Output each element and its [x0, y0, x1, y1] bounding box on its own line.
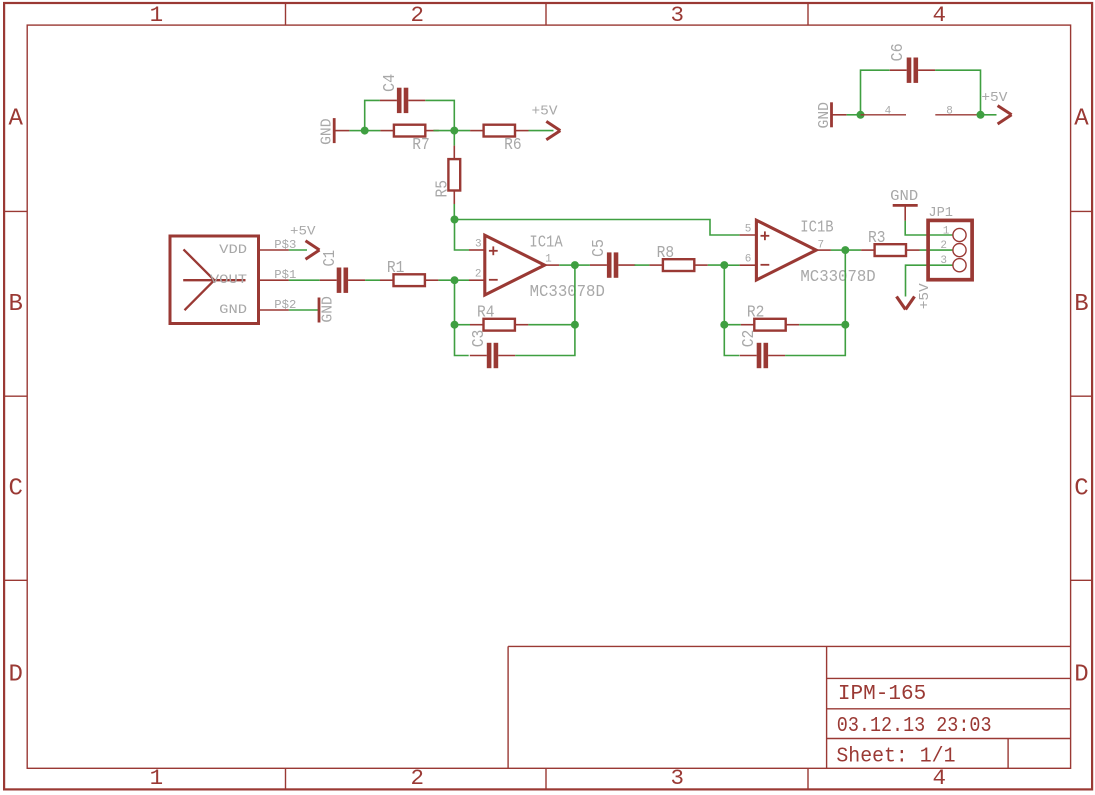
- wire GND pin: [289, 309, 319, 311]
- svg-text:C5: C5: [590, 239, 609, 257]
- svg-text:3: 3: [940, 255, 947, 267]
- capacitor C3: [470, 343, 515, 368]
- frame column numbers (top): [150, 2, 946, 28]
- svg-text:+5V: +5V: [917, 283, 933, 310]
- junction: [361, 127, 369, 135]
- resistor R4: [470, 319, 528, 331]
- svg-text:IC1A: IC1A: [529, 234, 563, 253]
- junction: [571, 261, 579, 269]
- wire C1 to R1: [365, 279, 380, 281]
- label R6: [504, 136, 521, 155]
- resistor R3: [861, 244, 919, 256]
- capacitor C1: [320, 268, 365, 293]
- ground GND (sensor): [318, 298, 321, 323]
- wire R5 to node: [453, 204, 455, 220]
- wire junction to R6: [454, 130, 470, 132]
- wire R8 to node: [708, 264, 725, 266]
- resistor R1: [380, 274, 438, 286]
- svg-text:R7: R7: [412, 136, 430, 155]
- junction: [720, 321, 728, 329]
- frame row letters (left): [8, 105, 23, 688]
- svg-text:C: C: [1074, 476, 1088, 503]
- supply +5V (R6): [546, 121, 560, 139]
- wire R4 to node: [528, 324, 575, 326]
- svg-text:2: 2: [411, 2, 425, 28]
- svg-text:4: 4: [885, 105, 892, 117]
- wire node to pin 2: [455, 279, 470, 281]
- ground GND (C6): [832, 102, 847, 127]
- capacitor C5: [590, 252, 635, 277]
- label GND (sensor): [320, 296, 336, 323]
- pin name VDD: [219, 243, 247, 257]
- junction: [977, 111, 985, 119]
- wire node to R2: [724, 324, 741, 326]
- svg-text:C: C: [8, 476, 22, 503]
- pin 1 stub IC1A: [544, 264, 559, 266]
- svg-text:R3: R3: [868, 229, 886, 248]
- junction: [451, 321, 459, 329]
- pin 3 stub IC1A: [469, 249, 484, 251]
- label +5V (sensor): [290, 224, 316, 238]
- pin number 3 (JP1): [940, 255, 947, 267]
- wire R3 to JP1 pin 2: [920, 249, 953, 251]
- pin number 7 (IC1B): [817, 239, 824, 251]
- resistor R6: [470, 125, 528, 137]
- label R5: [433, 180, 452, 198]
- connector JP1: [928, 220, 972, 279]
- title text IPM-165: [838, 683, 926, 706]
- svg-text:R4: R4: [477, 304, 495, 323]
- svg-text:D: D: [1074, 662, 1088, 689]
- wire GND to node (C6): [847, 114, 861, 116]
- capacitor C6: [890, 58, 935, 83]
- svg-text:GND: GND: [320, 296, 336, 323]
- wire R2 to node: [799, 324, 845, 326]
- pin name GND: [219, 303, 247, 317]
- wire C2 to right vertical (IC1B): [785, 250, 845, 355]
- wire R7 to junction: [433, 130, 454, 132]
- label GND (R7 section): [320, 118, 336, 145]
- label MC33078D (IC1A): [530, 283, 605, 302]
- frame column numbers (bottom): [150, 765, 946, 791]
- svg-text:MC33078D: MC33078D: [530, 283, 605, 302]
- pin number 1 (JP1): [943, 225, 950, 237]
- svg-text:4: 4: [933, 765, 947, 791]
- wire VDD to +5V: [289, 249, 307, 251]
- svg-text:C4: C4: [381, 74, 400, 92]
- op-amp IC1B: [756, 220, 816, 280]
- svg-text:7: 7: [817, 239, 824, 251]
- pin 6 stub IC1B: [740, 264, 756, 266]
- pin number 4 (IC1): [885, 105, 892, 117]
- wire node to +5V (C6): [981, 114, 997, 116]
- svg-text:MC33078D: MC33078D: [800, 268, 875, 287]
- label P$3: [274, 239, 296, 252]
- svg-text:1: 1: [545, 254, 552, 266]
- power pin 8 (IC1): [935, 114, 980, 116]
- wire C3 to right vertical: [515, 265, 575, 355]
- resistor R8: [649, 259, 707, 271]
- svg-text:03.12.13 23:03: 03.12.13 23:03: [837, 715, 992, 738]
- junction: [720, 261, 728, 269]
- pin 7 stub IC1B: [816, 249, 831, 251]
- pin number 2 (JP1): [940, 240, 947, 252]
- svg-text:1: 1: [943, 225, 950, 237]
- svg-text:GND: GND: [890, 189, 918, 205]
- pin P$3 stub: [259, 249, 289, 251]
- wire JP1 pin 3 to +5V: [906, 265, 953, 296]
- wire node to IC1B +in: [455, 220, 740, 236]
- pin P$2 stub: [259, 309, 289, 311]
- svg-text:C6: C6: [889, 43, 908, 61]
- wire GND to JP1 pin 1: [905, 221, 953, 235]
- resistor R2: [741, 319, 799, 331]
- wire R1 to node: [438, 279, 454, 281]
- junction: [571, 321, 579, 329]
- pin name VOUT: [210, 273, 248, 287]
- resistor R5: [448, 146, 460, 204]
- pin number 8 (IC1): [946, 105, 953, 117]
- label C1: [321, 250, 340, 267]
- label C5: [590, 239, 609, 257]
- pin P$1 stub: [259, 279, 289, 281]
- label +5V (JP1): [917, 283, 933, 310]
- label R1: [387, 259, 405, 278]
- svg-text:GND: GND: [219, 303, 247, 317]
- label IC1A: [529, 234, 563, 253]
- svg-text:Sheet: 1/1: Sheet: 1/1: [836, 746, 955, 769]
- power pin 4 (IC1): [861, 114, 907, 116]
- junction: [841, 321, 849, 329]
- wire VOUT to C1: [289, 279, 320, 281]
- svg-text:C3: C3: [470, 330, 489, 348]
- svg-text:GND: GND: [320, 118, 336, 145]
- wire pin1 to node: [559, 264, 575, 266]
- wire C5 to R8: [635, 264, 650, 266]
- label C4: [381, 74, 400, 92]
- ground GND (JP1): [893, 205, 918, 220]
- wire C6 right leg: [935, 70, 980, 115]
- junction: [451, 276, 459, 284]
- wire junction to R7: [365, 130, 381, 132]
- junction: [451, 216, 459, 224]
- svg-text:R1: R1: [387, 259, 405, 278]
- pin number 2 (IC1A): [475, 268, 482, 280]
- svg-text:6: 6: [745, 254, 752, 266]
- svg-text:A: A: [8, 105, 23, 132]
- svg-text:VDD: VDD: [219, 243, 247, 257]
- svg-text:R2: R2: [747, 304, 765, 323]
- svg-text:8: 8: [946, 105, 953, 117]
- svg-text:R5: R5: [433, 180, 452, 198]
- pin number 3 (IC1A): [475, 238, 482, 250]
- svg-text:IC1B: IC1B: [800, 219, 833, 238]
- title sheet 1/1: [836, 746, 955, 769]
- supply +5V (JP1): [897, 297, 915, 310]
- wire R6 to +5V: [529, 130, 554, 132]
- svg-text:3: 3: [671, 2, 685, 28]
- svg-text:4: 4: [933, 2, 947, 28]
- title block: [508, 646, 1071, 768]
- label R2: [747, 304, 765, 323]
- ground GND (R7 section): [334, 118, 349, 143]
- pin 2 stub IC1A: [469, 279, 484, 281]
- svg-text:B: B: [8, 291, 22, 318]
- supply +5V (C6): [998, 106, 1012, 124]
- label R3: [868, 229, 886, 248]
- pin number 5 (IC1B): [745, 223, 752, 235]
- wire node to R4: [455, 324, 471, 326]
- svg-text:3: 3: [671, 765, 685, 791]
- svg-text:3: 3: [475, 238, 482, 250]
- label C2: [740, 330, 759, 348]
- svg-text:D: D: [8, 662, 22, 689]
- junction: [450, 127, 458, 135]
- svg-text:GND: GND: [817, 102, 833, 129]
- label C6: [889, 43, 908, 61]
- junction: [841, 246, 849, 254]
- wire feedback left vertical (IC1B): [724, 265, 739, 355]
- pin 5 stub IC1B: [740, 234, 756, 236]
- label P$1: [274, 269, 296, 282]
- wire node to pin 3: [455, 220, 470, 251]
- wire C4 left leg: [365, 100, 380, 130]
- wire feedback left vertical: [455, 280, 469, 355]
- label IC1B: [800, 219, 833, 238]
- svg-text:1: 1: [150, 2, 164, 28]
- wire junction to R5: [453, 131, 455, 146]
- label GND (C6): [817, 102, 833, 129]
- svg-text:+5V: +5V: [290, 224, 316, 238]
- label +5V (R6): [532, 104, 559, 120]
- wire node to C5: [575, 264, 590, 266]
- svg-text:2: 2: [940, 240, 947, 252]
- svg-text:JP1: JP1: [928, 206, 953, 221]
- title date 03.12.13 23:03: [837, 715, 992, 738]
- junction: [857, 111, 865, 119]
- svg-text:A: A: [1074, 105, 1089, 132]
- resistor R7: [380, 125, 438, 137]
- svg-text:+5V: +5V: [532, 104, 559, 120]
- wire node to pin 6: [724, 264, 739, 266]
- wire GND to junction: [349, 130, 364, 132]
- label R4: [477, 304, 495, 323]
- wire C6 left leg: [861, 70, 890, 115]
- capacitor C2: [740, 343, 785, 368]
- label +5V (C6): [981, 90, 1008, 106]
- pin number 1 (IC1A): [545, 254, 552, 266]
- svg-text:+5V: +5V: [981, 90, 1008, 106]
- svg-text:VOUT: VOUT: [210, 273, 248, 287]
- supply +5V (sensor): [306, 241, 320, 259]
- label R8: [657, 244, 675, 263]
- svg-text:C1: C1: [321, 250, 340, 267]
- label MC33078D (IC1B): [800, 268, 875, 287]
- label R7: [412, 136, 430, 155]
- svg-text:C2: C2: [740, 330, 759, 348]
- svg-text:IPM-165: IPM-165: [838, 683, 926, 706]
- label C3: [470, 330, 489, 348]
- op-amp IC1A: [485, 235, 545, 295]
- svg-text:R8: R8: [657, 244, 675, 263]
- svg-text:1: 1: [150, 765, 164, 791]
- frame row letters (right): [1074, 105, 1089, 688]
- pin number 6 (IC1B): [745, 254, 752, 266]
- sensor module (radar symbol): [170, 236, 259, 324]
- svg-text:2: 2: [411, 765, 425, 791]
- wire node to R3: [845, 249, 861, 251]
- svg-text:5: 5: [745, 223, 752, 235]
- svg-text:R6: R6: [504, 136, 521, 155]
- label JP1: [928, 206, 953, 221]
- label P$2: [274, 299, 296, 312]
- wire pin7 to node: [831, 249, 845, 251]
- capacitor C4: [380, 88, 425, 113]
- wire C4 right leg: [425, 100, 454, 130]
- label GND (JP1): [890, 189, 918, 205]
- svg-text:2: 2: [475, 268, 482, 280]
- svg-text:B: B: [1074, 291, 1088, 318]
